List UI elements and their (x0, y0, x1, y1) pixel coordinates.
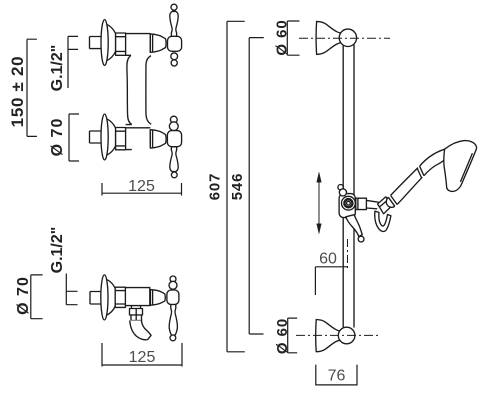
dimension 125 line (bottom figure) (102, 343, 182, 367)
spout lower nut block (131, 315, 142, 321)
dimension G.1/2 bracket (top) (68, 36, 78, 88)
wall cup top (316, 21, 340, 54)
dimension G.1/2 bracket (bottom figure) (66, 274, 77, 305)
flange bell (101, 275, 115, 320)
wall stub pipe bottom (90, 131, 103, 143)
centre axis dash-dot (top) (299, 37, 390, 39)
hex nut bottom (116, 128, 126, 150)
travel arrow (double headed) (317, 172, 322, 233)
handle finial bottom (two balls above hub) (170, 116, 177, 123)
hex nut top (116, 33, 126, 55)
bar axis dash-dot vertical (347, 239, 349, 270)
handshower grip band (388, 195, 397, 206)
dimension 546 line (249, 38, 264, 334)
handshower neck (420, 149, 447, 176)
svg-text:Ø 70: Ø 70 (49, 118, 66, 157)
handle finial (ball+bulge above hub) (170, 276, 176, 282)
wall cup bottom (316, 320, 340, 352)
svg-text:607: 607 (207, 173, 224, 200)
handshower face rim (460, 153, 472, 182)
bonnet (150, 290, 165, 306)
dimension Ø60 bracket (bottom) (288, 318, 298, 353)
svg-text:G.1/2": G.1/2" (49, 45, 66, 92)
slider lever (346, 215, 363, 237)
svg-text:150 ± 20: 150 ± 20 (8, 56, 27, 128)
dimension 60 line (315, 267, 347, 295)
dimension Ø70 bracket (bottom figure) (31, 275, 43, 319)
dimension 607 line (227, 21, 245, 352)
FIGURE2 bottom-left valve (15, 227, 182, 367)
connecting tube (126, 55, 152, 124)
spout neck (132, 306, 141, 309)
svg-text:G.1/2": G.1/2" (49, 227, 66, 274)
handle hub bottom (167, 131, 181, 147)
svg-text:125: 125 (129, 349, 156, 366)
dimension 150±20 line (27, 39, 37, 136)
bonnet bottom (150, 130, 166, 148)
ball joint top (339, 29, 356, 46)
ball joint bottom (338, 327, 355, 344)
valve body bottom (126, 128, 151, 150)
handshower head (444, 141, 477, 192)
FIGURE3 right slide bar (207, 19, 477, 385)
svg-text:125: 125 (128, 178, 155, 195)
flange bell bottom (101, 114, 116, 160)
dimension 125 line (top figure) (102, 183, 182, 196)
handshower neck band (417, 166, 424, 178)
slide bar (343, 45, 354, 329)
centre axis dash-dot (bottom) (296, 334, 378, 336)
valve body top (126, 34, 151, 56)
bonnet top (150, 34, 166, 52)
holder hook (375, 211, 391, 231)
hex nut (115, 287, 125, 307)
slider body (339, 194, 355, 218)
holder arm collar (356, 198, 367, 209)
handshower handle (391, 168, 423, 205)
svg-text:60: 60 (319, 251, 337, 268)
slider knob circles (342, 196, 356, 210)
handle lever top (baluster up) (170, 11, 178, 36)
svg-text:Ø 70: Ø 70 (15, 276, 32, 315)
svg-text:546: 546 (229, 173, 246, 200)
handle hub (167, 290, 179, 305)
wall stub pipe (90, 292, 101, 305)
spout curved outlet (130, 321, 151, 340)
holder arm rod (366, 200, 378, 208)
spout upper nut block (130, 309, 143, 316)
handle lever bottom (baluster down) (170, 147, 178, 172)
dimension 76 line (316, 365, 357, 386)
svg-text:76: 76 (328, 368, 346, 385)
handshower grip butt (386, 197, 395, 207)
dimension Ø60 bracket (top) (287, 21, 299, 55)
holder cup block (378, 197, 392, 214)
handle hub top (168, 36, 182, 51)
slider top balls (338, 185, 343, 190)
flange bell top (101, 20, 116, 66)
dimension Ø70 bracket (top figure) (69, 114, 79, 161)
handle lever (baluster down) (169, 305, 177, 336)
wall stub pipe top (90, 37, 103, 49)
valve body (125, 288, 150, 306)
svg-text:Ø 60: Ø 60 (274, 19, 291, 55)
FIGURE1 top-left wall mixer (8, 4, 182, 195)
handle finial top (two balls) (171, 53, 178, 60)
